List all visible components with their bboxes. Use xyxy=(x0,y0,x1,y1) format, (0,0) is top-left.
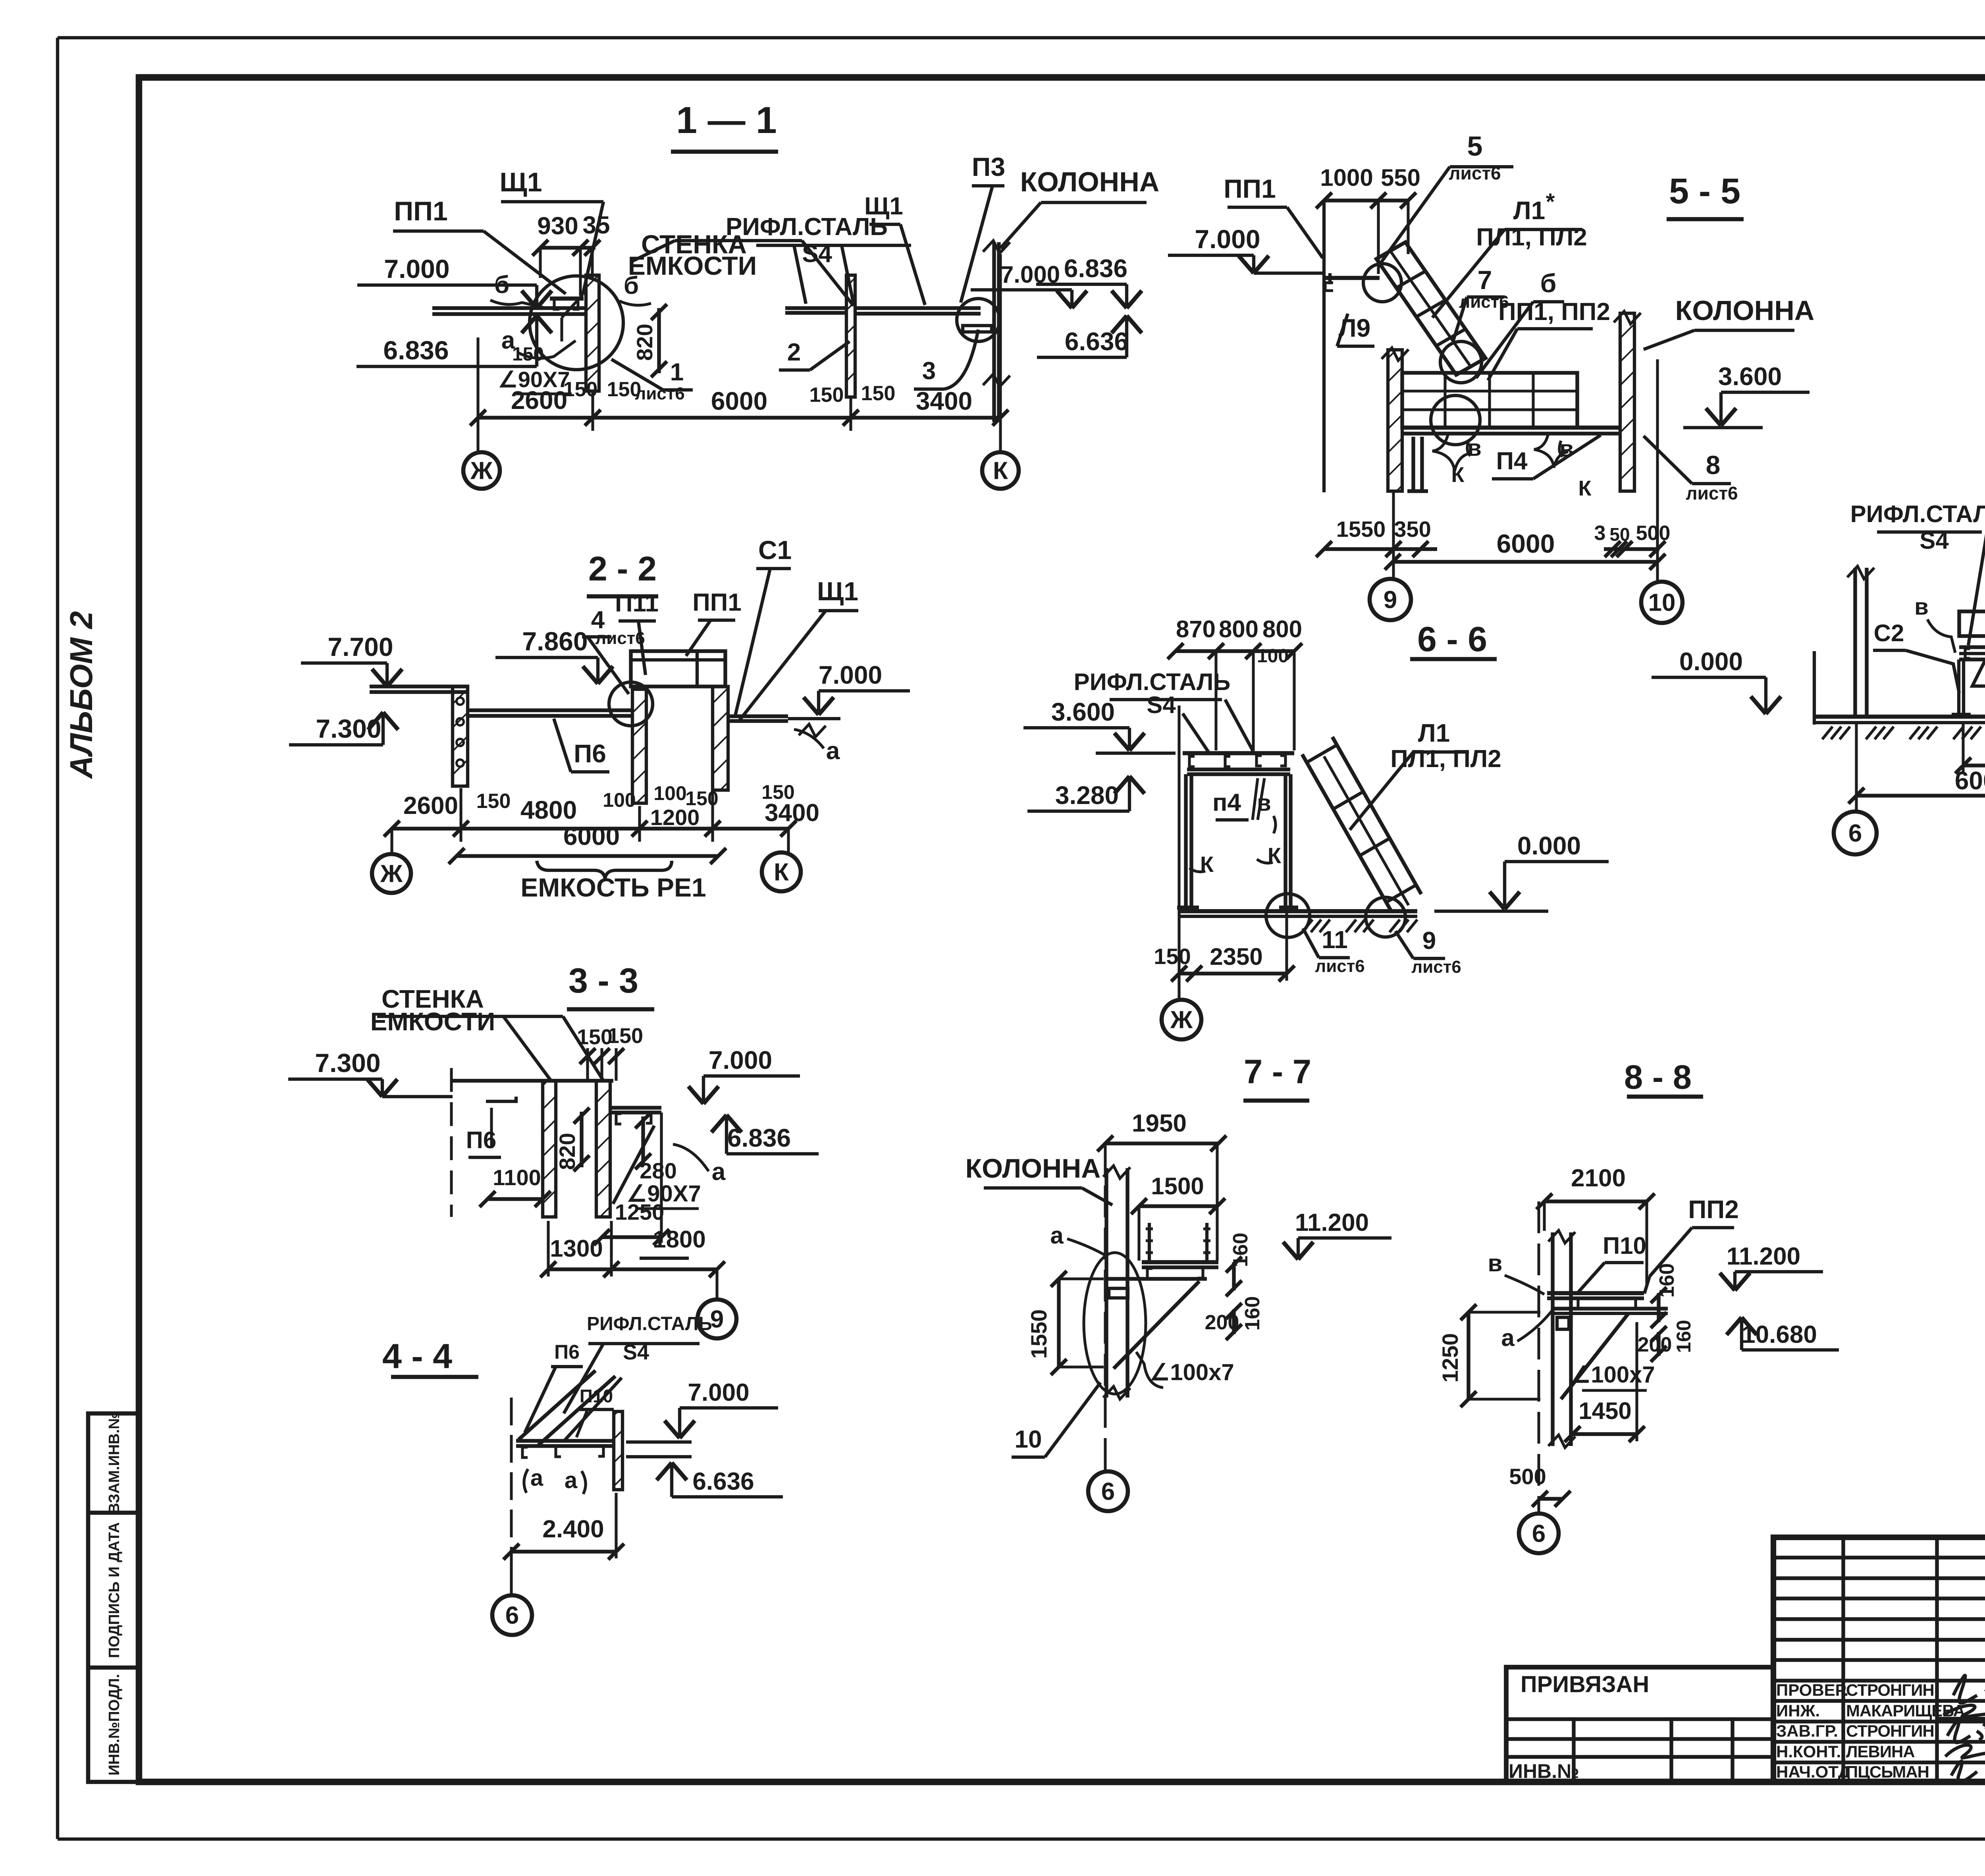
svg-text:3.280: 3.280 xyxy=(1055,781,1119,810)
left margin stacked boxes xyxy=(88,1413,139,1782)
svg-text:3: 3 xyxy=(1594,522,1606,545)
privyazan block xyxy=(1506,1667,1773,1782)
svg-text:ПП1: ПП1 xyxy=(692,589,742,616)
svg-text:a: a xyxy=(712,1158,726,1186)
1-1 tank wall hatched xyxy=(586,275,599,391)
svg-text:7.000: 7.000 xyxy=(1195,224,1260,254)
svg-text:6000: 6000 xyxy=(711,387,767,415)
svg-text:3.600: 3.600 xyxy=(1718,362,1782,391)
svg-text:СТРОНГИН: СТРОНГИН xyxy=(1846,1722,1934,1740)
1-1 bracket on wall xyxy=(550,297,584,301)
svg-text:1550: 1550 xyxy=(1336,517,1386,542)
svg-text:150: 150 xyxy=(861,382,896,405)
svg-text:лист6: лист6 xyxy=(1315,956,1365,976)
3-3 left dashed edge xyxy=(450,1068,453,1217)
1-1 right wall hatched xyxy=(846,275,855,397)
svg-text:800: 800 xyxy=(1219,616,1258,642)
svg-text:П11: П11 xyxy=(615,590,659,617)
svg-text:ПРИВЯЗАН: ПРИВЯЗАН xyxy=(1521,1672,1649,1697)
svg-text:Щ1: Щ1 xyxy=(817,576,858,606)
svg-text:3 - 3: 3 - 3 xyxy=(569,961,638,1000)
svg-text:Ж: Ж xyxy=(1170,1006,1193,1034)
signatures xyxy=(1953,1675,1985,1703)
5-5 detail circles xyxy=(1363,264,1401,302)
2-2 axis Zh xyxy=(390,829,393,854)
2-2 beam P6 xyxy=(468,708,632,712)
svg-text:п4: п4 xyxy=(1212,789,1241,816)
svg-text:2350: 2350 xyxy=(1210,943,1262,970)
7-7 axis bubble 6 xyxy=(1088,1471,1128,1511)
svg-text:∠100x7: ∠100x7 xyxy=(1149,1359,1234,1385)
5-5 axis bubbles xyxy=(1392,491,1395,578)
2-2 axis K xyxy=(787,829,790,853)
svg-text:280: 280 xyxy=(640,1158,676,1183)
title block outline xyxy=(1773,1537,1985,1782)
3-3 brace diagonal xyxy=(613,1126,654,1204)
svg-text:2600: 2600 xyxy=(403,792,458,819)
svg-text:лист6: лист6 xyxy=(1686,483,1738,503)
svg-text:в: в xyxy=(1914,594,1929,620)
1-1 column xyxy=(992,242,996,422)
10-10 struts xyxy=(1957,659,1960,715)
svg-text:Л1: Л1 xyxy=(1513,196,1546,225)
svg-text:КОЛОННА: КОЛОННА xyxy=(1020,166,1160,197)
svg-text:*: * xyxy=(1546,189,1555,215)
8-8 beams xyxy=(1547,1291,1644,1296)
svg-text:ПОДПИСЬ И ДАТА: ПОДПИСЬ И ДАТА xyxy=(106,1522,123,1658)
signature table rows xyxy=(1773,1556,1985,1559)
svg-text:160: 160 xyxy=(1673,1320,1695,1353)
3-3 wall bars hatched xyxy=(543,1081,556,1217)
svg-text:10.680: 10.680 xyxy=(1742,1321,1817,1348)
svg-text:1: 1 xyxy=(670,359,684,386)
8-8 column xyxy=(1551,1232,1554,1446)
5-5 panel at top xyxy=(1324,276,1380,280)
svg-text:6000: 6000 xyxy=(1955,766,1985,795)
svg-text:6.636: 6.636 xyxy=(692,1468,754,1495)
svg-text:1500: 1500 xyxy=(1151,1173,1204,1199)
2-2 left wall hatched xyxy=(453,686,468,786)
svg-text:7.000: 7.000 xyxy=(709,1046,772,1074)
10-10 ground edge vertical xyxy=(1813,651,1816,725)
svg-text:S4: S4 xyxy=(1147,692,1176,718)
svg-text:ПЛ1, ПЛ2: ПЛ1, ПЛ2 xyxy=(1476,224,1587,251)
svg-text:2: 2 xyxy=(787,339,801,366)
svg-text:870: 870 xyxy=(1176,616,1216,642)
svg-text:ЕМКОСТЬ РЕ1: ЕМКОСТЬ РЕ1 xyxy=(520,873,706,902)
svg-text:П10: П10 xyxy=(1603,1232,1646,1259)
5-5 wall edge vertical xyxy=(1322,201,1326,492)
svg-text:3.600: 3.600 xyxy=(1051,698,1115,726)
svg-text:П6: П6 xyxy=(574,739,606,768)
3-3 top line xyxy=(451,1079,613,1082)
svg-text:7: 7 xyxy=(1478,265,1492,295)
svg-text:6000: 6000 xyxy=(563,822,620,850)
svg-text:5: 5 xyxy=(1467,131,1483,162)
svg-text:ЛЕВИНА: ЛЕВИНА xyxy=(1846,1742,1915,1761)
svg-text:8 - 8: 8 - 8 xyxy=(1624,1059,1692,1096)
svg-text:5 - 5: 5 - 5 xyxy=(1669,172,1740,211)
svg-text:ПП1, ПП2: ПП1, ПП2 xyxy=(1498,298,1610,326)
svg-text:500: 500 xyxy=(1509,1464,1546,1489)
7-7 column centerline xyxy=(1104,1143,1107,1471)
svg-text:160: 160 xyxy=(1229,1233,1252,1267)
7-7 bracket beams xyxy=(1142,1260,1218,1265)
svg-text:ПЦСЬМАН: ПЦСЬМАН xyxy=(1846,1762,1929,1781)
svg-text:ЗАВ.ГР.: ЗАВ.ГР. xyxy=(1776,1722,1838,1740)
svg-text:ЕМКОСТИ: ЕМКОСТИ xyxy=(370,1007,495,1036)
svg-text:С1: С1 xyxy=(758,535,792,565)
svg-text:2600: 2600 xyxy=(511,386,567,415)
2-2 detail circle xyxy=(609,682,653,726)
8-8 bolt square xyxy=(1557,1317,1569,1329)
svg-text:a: a xyxy=(565,1467,578,1493)
5-5 small post under beam xyxy=(1411,437,1415,491)
4-4 beam xyxy=(516,1439,614,1442)
10-10 ground xyxy=(1814,715,1985,719)
5-5 right column hatched xyxy=(1620,313,1634,491)
svg-text:100: 100 xyxy=(653,782,686,804)
2-2 ledge right xyxy=(728,714,788,718)
svg-text:К: К xyxy=(1451,463,1465,487)
8-8 axis bubble 6 xyxy=(1519,1514,1559,1553)
svg-text:П10: П10 xyxy=(580,1386,613,1406)
svg-text:800: 800 xyxy=(1262,616,1302,642)
svg-text:7.000: 7.000 xyxy=(819,661,882,689)
2-2 brace emkost xyxy=(537,861,672,879)
svg-text:160: 160 xyxy=(1241,1296,1264,1331)
3-3 axis 9 bubble xyxy=(715,1269,718,1300)
svg-text:6000: 6000 xyxy=(1497,529,1555,558)
svg-text:АЛЬБОМ 2: АЛЬБОМ 2 xyxy=(64,611,99,779)
svg-text:a: a xyxy=(530,1465,543,1491)
svg-text:350: 350 xyxy=(1394,517,1431,542)
4-4 inclined beam xyxy=(518,1371,595,1440)
svg-text:ИНЖ.: ИНЖ. xyxy=(1776,1701,1820,1720)
svg-text:150: 150 xyxy=(476,790,511,813)
svg-text:РИФЛ.СТАЛЬ: РИФЛ.СТАЛЬ xyxy=(1074,669,1231,695)
svg-text:ИНВ.№: ИНВ.№ xyxy=(1509,1760,1579,1782)
svg-text:С2: С2 xyxy=(1874,620,1904,646)
svg-text:2100: 2100 xyxy=(1571,1165,1626,1192)
svg-text:1 — 1: 1 — 1 xyxy=(676,99,777,141)
svg-text:6: 6 xyxy=(505,1602,519,1629)
4-4 wall hatched xyxy=(614,1411,622,1490)
svg-text:2 - 2: 2 - 2 xyxy=(588,550,657,588)
svg-text:б: б xyxy=(624,272,639,299)
svg-text:6.836: 6.836 xyxy=(383,335,449,365)
svg-text:Щ1: Щ1 xyxy=(499,167,542,197)
svg-text:ПРОВЕР.: ПРОВЕР. xyxy=(1776,1681,1848,1699)
svg-text:11.200: 11.200 xyxy=(1295,1209,1369,1236)
svg-text:550: 550 xyxy=(1381,164,1420,191)
svg-text:СТРОНГИН: СТРОНГИН xyxy=(1846,1681,1934,1699)
8-8 brace diagonal xyxy=(1561,1313,1628,1399)
1-1 grid bubble Zh xyxy=(463,452,500,489)
1-1 main dim line xyxy=(478,416,1000,419)
svg-text:ПП1: ПП1 xyxy=(394,196,448,226)
svg-text:3: 3 xyxy=(922,357,936,385)
svg-text:РИФЛ.СТАЛЬ: РИФЛ.СТАЛЬ xyxy=(1850,501,1985,527)
2-2 panel P11 box xyxy=(631,651,725,686)
4-4 axis 6 bubble xyxy=(510,1552,513,1595)
svg-text:Щ1: Щ1 xyxy=(864,193,903,220)
svg-text:ПП2: ПП2 xyxy=(1688,1195,1739,1224)
svg-text:3400: 3400 xyxy=(765,799,819,827)
1-1 axis Zh line xyxy=(476,337,479,452)
svg-text:9: 9 xyxy=(1384,586,1397,614)
svg-text:150: 150 xyxy=(607,1024,643,1048)
1-1 floor left xyxy=(432,306,586,310)
svg-text:лист6: лист6 xyxy=(1411,957,1461,977)
svg-text:35: 35 xyxy=(583,212,610,239)
10-10 axis bubbles xyxy=(1855,723,1858,811)
1-1 detail circle right xyxy=(957,299,1000,341)
1-1 axis K line xyxy=(999,254,1002,451)
svg-text:4 - 4: 4 - 4 xyxy=(382,1336,452,1376)
svg-text:11: 11 xyxy=(1322,926,1348,954)
svg-text:100: 100 xyxy=(603,789,636,811)
svg-text:КОЛОННА: КОЛОННА xyxy=(966,1153,1101,1184)
svg-text:10: 10 xyxy=(1015,1426,1042,1453)
signature table columns xyxy=(1841,1537,1845,1782)
2-2 dim 6000 xyxy=(457,854,718,858)
5-5 platform beam xyxy=(1402,426,1620,430)
svg-text:КОЛОННА: КОЛОННА xyxy=(1675,295,1815,326)
svg-text:Н.КОНТ.: Н.КОНТ. xyxy=(1776,1742,1841,1761)
svg-text:Ж: Ж xyxy=(470,457,493,485)
outer thin border xyxy=(58,36,1985,39)
6-6 ground line xyxy=(1179,909,1417,914)
7-7 column xyxy=(1104,1168,1108,1398)
6-6 top beam xyxy=(1183,751,1294,756)
10-10 screen band xyxy=(1959,611,1985,636)
svg-text:6.636: 6.636 xyxy=(1065,327,1128,356)
svg-text:9: 9 xyxy=(1422,927,1436,954)
svg-text:820: 820 xyxy=(555,1133,580,1170)
svg-text:1450: 1450 xyxy=(1578,1398,1631,1424)
svg-text:б: б xyxy=(1540,268,1557,298)
svg-text:7.700: 7.700 xyxy=(328,632,393,661)
svg-text:100: 100 xyxy=(1257,646,1289,667)
svg-text:Л1: Л1 xyxy=(1418,719,1450,747)
2-2 roof line xyxy=(370,684,469,688)
svg-text:ВЗАМ.ИНВ.№: ВЗАМ.ИНВ.№ xyxy=(106,1412,123,1514)
svg-text:НАЧ.ОТД: НАЧ.ОТД xyxy=(1776,1762,1850,1781)
svg-text:10: 10 xyxy=(1648,589,1676,617)
svg-text:6 - 6: 6 - 6 xyxy=(1417,619,1487,659)
10-10 left column xyxy=(1853,568,1857,717)
6-6 axis Zh xyxy=(1178,706,1180,974)
svg-text:7.000: 7.000 xyxy=(688,1379,749,1406)
1-1 detail circle xyxy=(530,276,623,370)
svg-text:1550: 1550 xyxy=(1026,1309,1051,1359)
5-5 ladder L9 xyxy=(1376,242,1486,375)
svg-text:a: a xyxy=(1501,1325,1515,1351)
5-5 support curves under beam xyxy=(1432,434,1470,471)
7-7 detail oval xyxy=(1084,1253,1146,1394)
svg-text:0.000: 0.000 xyxy=(1517,831,1581,860)
svg-text:Ж: Ж xyxy=(380,860,403,888)
svg-text:a: a xyxy=(1050,1222,1064,1249)
1-1 floor right xyxy=(785,306,846,310)
svg-text:ИНВ.№ПОДЛ.: ИНВ.№ПОДЛ. xyxy=(106,1674,123,1776)
svg-text:11.200: 11.200 xyxy=(1727,1243,1800,1270)
8-8 column centerline xyxy=(1538,1201,1540,1512)
7-7 slot xyxy=(1109,1288,1128,1298)
svg-text:820: 820 xyxy=(632,324,657,361)
1-1 grid bubble K xyxy=(982,452,1019,489)
6-6 ladder L1 xyxy=(1302,754,1391,912)
svg-text:РИФЛ.СТАЛЬ: РИФЛ.СТАЛЬ xyxy=(726,213,888,241)
svg-text:К: К xyxy=(1578,476,1592,500)
10-10 P7 left xyxy=(1972,662,1985,686)
svg-text:6: 6 xyxy=(1532,1520,1546,1548)
2-2 right wall hatched xyxy=(713,686,728,790)
svg-text:3400: 3400 xyxy=(916,387,972,415)
svg-text:П6: П6 xyxy=(554,1341,580,1363)
svg-text:a: a xyxy=(826,737,840,765)
svg-text:6: 6 xyxy=(1848,820,1862,847)
5-5 platform grid panel xyxy=(1402,373,1577,428)
svg-text:РИФЛ.СТАЛЬ: РИФЛ.СТАЛЬ xyxy=(587,1313,712,1334)
svg-text:К: К xyxy=(774,859,789,886)
svg-text:6: 6 xyxy=(1101,1478,1115,1506)
svg-text:7.300: 7.300 xyxy=(315,1048,380,1078)
4-4 centerline xyxy=(510,1398,513,1550)
svg-text:150: 150 xyxy=(809,384,844,407)
3-3 platform right xyxy=(610,1106,661,1109)
svg-text:П4: П4 xyxy=(1496,447,1528,475)
5-5 left column hatched xyxy=(1388,350,1402,491)
svg-text:б: б xyxy=(494,271,509,299)
svg-text:7.860: 7.860 xyxy=(522,627,588,656)
svg-text:930: 930 xyxy=(537,212,578,240)
svg-text:1250: 1250 xyxy=(1438,1333,1463,1383)
svg-text:ПП1: ПП1 xyxy=(1224,174,1276,203)
svg-text:150: 150 xyxy=(512,344,544,365)
svg-text:4800: 4800 xyxy=(520,796,577,824)
svg-text:7.000: 7.000 xyxy=(384,254,449,283)
10-10 floor lines xyxy=(1959,645,1985,649)
svg-text:в: в xyxy=(1488,1250,1503,1276)
2-2 dims row xyxy=(392,827,788,830)
svg-text:К: К xyxy=(993,457,1008,485)
svg-text:1000: 1000 xyxy=(1320,164,1373,191)
7-7 brace diagonal xyxy=(1114,1281,1199,1369)
svg-text:7 - 7: 7 - 7 xyxy=(1244,1053,1311,1091)
svg-text:8: 8 xyxy=(1706,450,1721,480)
svg-text:1300: 1300 xyxy=(550,1235,603,1262)
6-6 detail circles xyxy=(1266,894,1310,937)
svg-text:в: в xyxy=(1467,435,1482,461)
6-6 tank walls xyxy=(1184,774,1187,908)
2-2 middle wall hatched xyxy=(632,689,646,803)
svg-text:∠100x7: ∠100x7 xyxy=(1570,1362,1655,1388)
svg-text:1250: 1250 xyxy=(615,1199,665,1224)
svg-text:П3: П3 xyxy=(972,152,1005,181)
4-4 level lines xyxy=(626,1440,692,1444)
svg-text:2.400: 2.400 xyxy=(542,1515,604,1543)
section name row xyxy=(1937,1717,1985,1722)
svg-text:1100: 1100 xyxy=(493,1165,541,1190)
svg-text:0.000: 0.000 xyxy=(1679,647,1743,676)
svg-text:1800: 1800 xyxy=(653,1226,705,1253)
svg-text:6.836: 6.836 xyxy=(1064,254,1127,283)
svg-text:1950: 1950 xyxy=(1132,1110,1187,1137)
svg-text:1200: 1200 xyxy=(650,805,700,830)
